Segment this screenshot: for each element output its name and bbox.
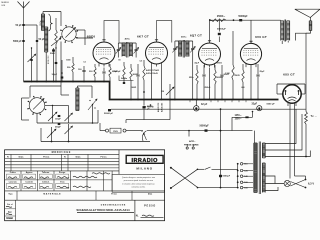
capacitor 100pF osc bbox=[58, 115, 61, 117]
wire top cap loop V1 bbox=[104, 21, 119, 43]
logo IRRADIO box bbox=[126, 155, 163, 163]
tube V1 6BE6 bbox=[93, 42, 115, 64]
svg-text:FUS: FUS bbox=[113, 131, 118, 133]
resistor R9 bbox=[214, 65, 216, 70]
capacitor C17 el bbox=[195, 100, 197, 106]
svg-text:Ordine: Ordine bbox=[10, 172, 16, 174]
table pezzo cell bbox=[134, 200, 136, 221]
fuse F1 bbox=[106, 129, 109, 132]
wire field coil drop bbox=[305, 33, 307, 111]
svg-text:50: 50 bbox=[118, 60, 120, 62]
svg-text:APPL.: APPL. bbox=[189, 140, 196, 143]
speaker cone bbox=[295, 9, 320, 17]
signature squiggles bbox=[8, 177, 17, 179]
wire mains cross 1 bbox=[171, 168, 198, 188]
switch S1b wafer bbox=[29, 98, 45, 114]
svg-text:Disegn.: Disegn. bbox=[59, 172, 66, 174]
svg-text:in visione a terzi senza nostr: in visione a terzi senza nostro espresso bbox=[122, 182, 154, 185]
resistor R6 bbox=[130, 64, 132, 68]
svg-text:32μF: 32μF bbox=[252, 103, 258, 106]
tap 110 bbox=[237, 163, 239, 165]
svg-text:6BE6: 6BE6 bbox=[87, 35, 96, 39]
wire heater sec 1 bbox=[265, 176, 275, 184]
resistor R8 bbox=[196, 65, 198, 70]
power transformer T4 secondary bbox=[262, 143, 265, 158]
svg-text:AX14·15kΩ: AX14·15kΩ bbox=[146, 72, 158, 75]
wire lamp cross 1 bbox=[290, 182, 305, 188]
svg-text:1250∼: 1250∼ bbox=[235, 115, 242, 117]
coil L1 aerial bbox=[41, 14, 44, 31]
svg-text:Tolleran.: Tolleran. bbox=[42, 172, 50, 174]
capacitor 50pF coil bbox=[36, 40, 38, 42]
wire mains drop bbox=[220, 109, 222, 130]
label 517000 bbox=[150, 104, 152, 106]
wire antenna coupling bbox=[24, 24, 38, 26]
table denominazione top line bbox=[5, 199, 165, 201]
table materiale row bbox=[5, 190, 165, 192]
wire T1 bottom bbox=[117, 55, 119, 58]
wire S1a to mixer bbox=[60, 12, 62, 27]
svg-text:25μF: 25μF bbox=[260, 71, 266, 73]
table signature cells bbox=[20, 171, 22, 191]
wire OT secondary bbox=[287, 41, 289, 43]
svg-text:50000 pF: 50000 pF bbox=[104, 113, 114, 115]
antenna bbox=[18, 2, 30, 9]
chassis bus bbox=[24, 82, 279, 100]
table divider vertical bbox=[118, 150, 120, 175]
svg-text:Tv →: Tv → bbox=[311, 114, 318, 118]
svg-text:AX15·175kΩ: AX15·175kΩ bbox=[146, 69, 159, 72]
small box SA bbox=[119, 76, 134, 81]
wire HV secondary bot bbox=[265, 151, 310, 157]
wire selector top bbox=[254, 131, 256, 143]
svg-text:50000μF: 50000μF bbox=[200, 126, 210, 128]
svg-text:25000∼: 25000∼ bbox=[217, 16, 225, 18]
wire heater sec 3 bbox=[265, 187, 278, 191]
svg-text:6K7 GT: 6K7 GT bbox=[137, 35, 149, 39]
svg-text:467kc: 467kc bbox=[125, 38, 130, 41]
coil L2 oscillator bbox=[45, 27, 48, 52]
junction mains bbox=[220, 130, 222, 132]
resistor R3 cathode bbox=[94, 64, 96, 67]
wire tuning cage top bbox=[22, 97, 30, 99]
wire T2 top bbox=[174, 41, 176, 44]
wire 6V6 cathode bbox=[250, 67, 252, 100]
svg-text:250pF: 250pF bbox=[55, 127, 62, 129]
tap 160 bbox=[237, 181, 239, 183]
wire top cap loop V2 bbox=[157, 21, 172, 43]
wire padder row bbox=[41, 141, 150, 143]
tube V5 6X5GT bbox=[283, 85, 301, 103]
svg-text:.05μF: .05μF bbox=[194, 63, 200, 65]
B plus line bbox=[155, 108, 306, 110]
wire osc grid bbox=[31, 48, 33, 82]
wire heater drop 1 bbox=[289, 103, 291, 178]
svg-text:51·7000 Ω: 51·7000 Ω bbox=[144, 107, 154, 109]
svg-text:BOB.OSC: BOB.OSC bbox=[48, 55, 50, 64]
wire top cap V4 bbox=[250, 20, 252, 43]
wire tuning bottom bbox=[36, 114, 38, 124]
variable capacitor C14 tuning bbox=[65, 113, 73, 121]
wire selector bbox=[198, 168, 205, 170]
svg-text:0,1: 0,1 bbox=[83, 62, 86, 64]
svg-text:50000pF: 50000pF bbox=[238, 16, 248, 18]
resistor R10 grid 6V6 bbox=[232, 31, 234, 40]
wire field coil lower bbox=[305, 124, 307, 157]
svg-text:puo essere riprod. trasferito: puo essere riprod. trasferito ne reso bbox=[124, 179, 153, 182]
wire 6Q7 cathode bbox=[209, 68, 211, 100]
potentiometer volume bbox=[169, 84, 171, 100]
svg-text:467kc: 467kc bbox=[181, 36, 186, 39]
capacitor C11 bbox=[221, 65, 223, 74]
capacitor C10 bbox=[203, 65, 205, 74]
svg-text:Collaud.: Collaud. bbox=[42, 181, 50, 183]
svg-text:5000 pF: 5000 pF bbox=[13, 41, 22, 43]
svg-text:Vist. el.: Vist. el. bbox=[7, 203, 13, 206]
wire 6K7 pins to bus bbox=[151, 67, 153, 100]
wire mains cross 2 bbox=[171, 169, 198, 188]
power transformer T4 primary bbox=[254, 143, 257, 193]
wire IFT2 stems to bus bbox=[174, 54, 176, 100]
svg-text:250kΩ: 250kΩ bbox=[205, 87, 211, 89]
tap 150 bbox=[237, 187, 239, 189]
svg-text:5000: 5000 bbox=[50, 53, 56, 55]
wire AVC lower bbox=[126, 119, 170, 121]
wire top cap V3 bbox=[209, 19, 211, 41]
resistor R4 screen bbox=[109, 64, 111, 67]
svg-text:100pF: 100pF bbox=[52, 74, 58, 76]
capacitor 5000pF padder bbox=[52, 49, 55, 51]
svg-text:consenso scritto.: consenso scritto. bbox=[131, 186, 145, 189]
capacitor 50000pF AVC bbox=[108, 109, 111, 111]
svg-text:6Q7 GT: 6Q7 GT bbox=[190, 34, 202, 38]
tap 140 bbox=[237, 175, 239, 177]
svg-text:100pF: 100pF bbox=[55, 119, 62, 121]
capacitor 50000pF grid bbox=[218, 20, 220, 31]
svg-text:Data: Data bbox=[76, 156, 82, 159]
trimmer osc bbox=[28, 54, 36, 62]
junction dots bus bbox=[151, 99, 153, 101]
resistor R11 cathode bbox=[242, 64, 244, 70]
tube V4 6V6GT bbox=[240, 43, 261, 64]
svg-text:Controll.: Controll. bbox=[25, 180, 33, 183]
resistor R5 bbox=[123, 62, 125, 66]
capacitor 50000pF series bbox=[239, 19, 242, 21]
svg-text:OSC: OSC bbox=[40, 21, 42, 26]
capacitor 50000pF AVC2 bbox=[143, 100, 145, 106]
svg-text:5000 pF: 5000 pF bbox=[267, 104, 276, 106]
svg-text:50 pF: 50 pF bbox=[39, 39, 46, 41]
svg-text:5000μF: 5000μF bbox=[223, 176, 231, 178]
tube V2 6K7GT bbox=[146, 42, 168, 64]
capacitor C9 bbox=[137, 64, 139, 74]
wire osc grid2 bbox=[61, 60, 63, 82]
svg-text:IRRADIO: IRRADIO bbox=[132, 158, 159, 164]
svg-text:AX15-5Y3: AX15-5Y3 bbox=[157, 102, 160, 112]
resistor R2 osc grid bbox=[72, 72, 74, 82]
trimmer C5 T2 bbox=[192, 44, 194, 48]
capacitor C8 screen bbox=[103, 68, 105, 72]
oscillator coil L3 bbox=[76, 88, 79, 111]
wire mains low bbox=[198, 187, 238, 189]
table frame bbox=[5, 150, 165, 221]
svg-text:1,5M: 1,5M bbox=[225, 73, 230, 75]
wire switch drop bbox=[92, 105, 94, 124]
svg-text:Questo disegno e nostra propri: Questo disegno e nostra proprieta e non bbox=[122, 176, 155, 179]
wire choke ends bbox=[231, 117, 233, 130]
svg-text:250Ω: 250Ω bbox=[234, 75, 239, 77]
table modifiche rows bbox=[5, 158, 119, 160]
svg-text:Lavorato: Lavorato bbox=[9, 180, 18, 183]
svg-text:5000: 5000 bbox=[66, 60, 70, 62]
speaker voice coil bbox=[309, 21, 312, 31]
pilot lamp bbox=[284, 180, 290, 186]
resistor R7 bbox=[143, 60, 145, 66]
power transformer core bbox=[258, 142, 260, 195]
switch S1a wafer bbox=[62, 27, 76, 41]
svg-text:Appr.: Appr. bbox=[8, 210, 13, 213]
svg-text:0,5: 0,5 bbox=[140, 61, 143, 63]
junction B plus bbox=[195, 108, 197, 110]
capacitor 50pF antenna bbox=[23, 24, 25, 26]
svg-text:P E S 5 O: P E S 5 O bbox=[144, 204, 155, 207]
resistor R1 grid bbox=[55, 30, 58, 44]
line mains to transformer bbox=[147, 130, 253, 132]
tap 125 bbox=[237, 170, 239, 172]
IF transformer T1 bbox=[122, 43, 125, 57]
svg-text:Perm.: Perm. bbox=[8, 218, 13, 220]
svg-text:M I L A N O: M I L A N O bbox=[136, 166, 152, 170]
svg-text:50000μF: 50000μF bbox=[217, 28, 226, 30]
svg-text:900Ω: 900Ω bbox=[132, 87, 137, 89]
svg-text:SCHEMA ELETTRICO MOD. AX15-AX1: SCHEMA ELETTRICO MOD. AX15-AX14 bbox=[76, 208, 130, 212]
variable capacitor C16 padder bbox=[65, 126, 73, 134]
table notice box bbox=[112, 174, 165, 192]
wire coil top bbox=[42, 12, 44, 15]
line AVC bbox=[111, 108, 155, 110]
choke field 1250 bbox=[232, 116, 253, 118]
resistor R20 field bbox=[305, 112, 308, 125]
wire heater sec 2 bbox=[265, 183, 284, 185]
svg-text:10000: 10000 bbox=[217, 63, 222, 65]
wire HV center bbox=[265, 117, 302, 150]
trimmer C4 T2 bbox=[174, 44, 176, 48]
svg-text:PRESE VARIE: PRESE VARIE bbox=[184, 143, 199, 146]
wire B+ to OT bbox=[262, 19, 281, 21]
wire heater drop 2 bbox=[294, 103, 296, 176]
tube V3 6Q7GT bbox=[199, 43, 221, 65]
output transformer T3 bbox=[281, 21, 284, 41]
svg-text:32 μF: 32 μF bbox=[201, 103, 208, 106]
wire prese varie bbox=[188, 131, 190, 137]
capacitor C20 5000pF bbox=[219, 175, 222, 177]
svg-text:Firma: Firma bbox=[111, 194, 117, 196]
variable capacitor C15 padder bbox=[47, 129, 56, 138]
IF transformer T2 bbox=[179, 41, 182, 57]
svg-text:Data: Data bbox=[19, 156, 25, 159]
svg-text:SA Mn: SA Mn bbox=[121, 77, 128, 80]
svg-text:M A T E R I A L E: M A T E R I A L E bbox=[43, 193, 61, 196]
svg-text:N.: N. bbox=[136, 214, 139, 218]
wire plate line bbox=[210, 19, 262, 21]
line mains mid bbox=[100, 130, 106, 132]
wire voice coil return bbox=[296, 31, 311, 41]
switch S2 mains bbox=[126, 130, 141, 132]
trimmer C2 T1 bbox=[117, 45, 119, 49]
switch S1c rotor bbox=[88, 99, 97, 110]
svg-text:8-18: 8-18 bbox=[2, 5, 6, 7]
bus stubs bbox=[189, 100, 191, 103]
svg-text:50000pF: 50000pF bbox=[113, 71, 121, 73]
wire coil bottom bbox=[45, 52, 47, 82]
trimmer C3 T1 bbox=[135, 45, 137, 49]
svg-text:D E N O M I N A Z I O N E: D E N O M I N A Z I O N E bbox=[101, 203, 126, 206]
resistor R12 25000 bbox=[211, 19, 226, 22]
capacitor C18 el 32uF bbox=[257, 106, 262, 111]
table signature top line bbox=[5, 170, 119, 172]
svg-text:50 pF: 50 pF bbox=[16, 25, 23, 27]
svg-text:6X5 GT: 6X5 GT bbox=[283, 73, 295, 77]
trimmer C1 bbox=[51, 38, 61, 46]
svg-text:600: 600 bbox=[241, 87, 244, 89]
wire T1 top bbox=[117, 43, 119, 45]
wire lamp cross 2 bbox=[290, 180, 305, 187]
wire antenna lead bbox=[23, 8, 25, 82]
wire HV secondary top bbox=[265, 109, 296, 143]
capacitor C12 bypass bbox=[257, 64, 259, 74]
svg-text:Approv.: Approv. bbox=[26, 171, 34, 174]
wire tuning links bbox=[45, 105, 53, 107]
capacitor 5000pF antenna bbox=[23, 40, 25, 42]
capacitor 250pF osc bbox=[58, 123, 61, 125]
variable capacitor C13 tuning bbox=[48, 112, 57, 121]
wire selector bus bbox=[237, 164, 239, 188]
table left stub column bbox=[15, 200, 17, 221]
svg-text:6,3 V: 6,3 V bbox=[308, 182, 314, 186]
capacitor C19 50000pF bbox=[205, 129, 208, 131]
svg-text:AX14-6X5: AX14-6X5 bbox=[161, 102, 164, 112]
svg-text:6V6 GT: 6V6 GT bbox=[255, 35, 267, 39]
brace coil group bbox=[49, 14, 53, 31]
capacitor C7 cathode bbox=[83, 66, 85, 70]
wire osc section bbox=[60, 42, 62, 96]
svg-text:M O D I F I C H E: M O D I F I C H E bbox=[52, 151, 71, 154]
svg-text:1500∼: 1500∼ bbox=[235, 119, 242, 121]
wire plate feeds V5 bbox=[277, 93, 283, 95]
